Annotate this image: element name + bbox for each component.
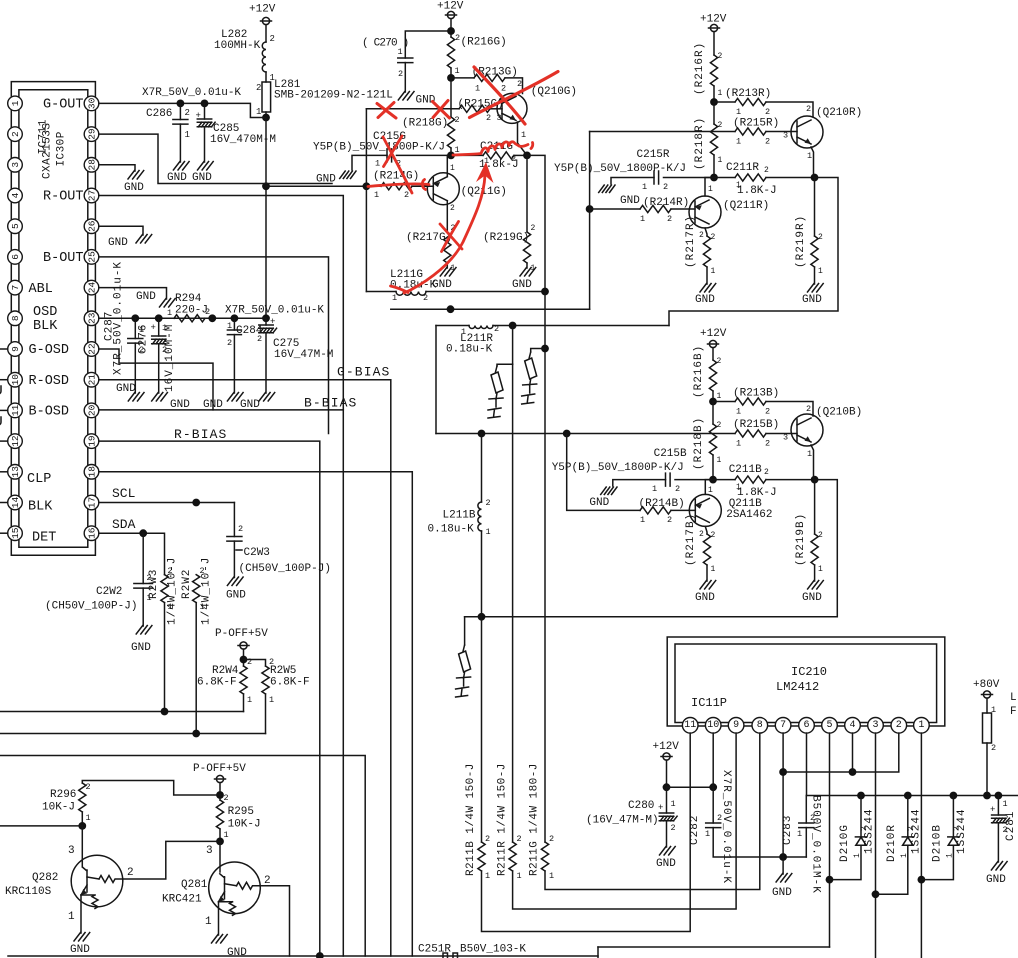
svg-text:SMB-201209-N2-121L: SMB-201209-N2-121L xyxy=(274,90,393,102)
svg-text:6.8K-F: 6.8K-F xyxy=(270,677,310,689)
junction SDA / C2W2 xyxy=(139,529,147,537)
junction C276 xyxy=(155,314,163,322)
junction P-OFF node xyxy=(216,791,224,799)
wire R215B to base xyxy=(766,433,797,435)
svg-text:2: 2 xyxy=(227,338,232,348)
svg-text:R294: R294 xyxy=(175,293,202,305)
svg-text:(R219B): (R219B) xyxy=(795,513,807,566)
wire stub pin 13 xyxy=(0,471,8,473)
junction N4B xyxy=(811,476,819,484)
svg-text:7: 7 xyxy=(780,720,786,731)
wire N3G to C211G xyxy=(451,154,483,156)
spark gap (B line) xyxy=(456,645,471,697)
wire G video column xyxy=(544,292,546,843)
bus wire y825 to left edge xyxy=(0,825,82,827)
svg-text:2: 2 xyxy=(765,107,770,117)
svg-text:5: 5 xyxy=(10,223,21,229)
wire Q211R emitter xyxy=(705,228,707,236)
wire pin6 column xyxy=(806,733,808,795)
wire R2W3 to bus xyxy=(164,603,166,712)
svg-text:3: 3 xyxy=(872,720,878,731)
resistor C211G 1.8k xyxy=(483,152,514,159)
svg-text:24: 24 xyxy=(87,282,98,294)
wire pin7 column xyxy=(782,733,784,857)
wire C287 top lead xyxy=(134,318,136,338)
wire D210B top xyxy=(952,796,954,837)
wire C280 to GND xyxy=(666,821,668,847)
ground C285 xyxy=(198,162,214,171)
wire R video column lower xyxy=(512,364,514,842)
resistor R215G xyxy=(459,105,490,112)
junction C285 top xyxy=(201,100,209,108)
svg-text:+80V: +80V xyxy=(973,679,1000,691)
svg-text:B-BIAS: B-BIAS xyxy=(304,396,357,411)
svg-text:1: 1 xyxy=(736,137,741,147)
svg-text:1: 1 xyxy=(256,107,261,117)
wire C270 to GND xyxy=(404,63,406,92)
junction L281 / +12V rail xyxy=(262,114,270,122)
junction R294 right xyxy=(208,314,216,322)
wire C285 lead xyxy=(204,103,206,119)
svg-text:9: 9 xyxy=(10,346,21,352)
resistor R215B xyxy=(735,430,766,437)
svg-text:4: 4 xyxy=(849,720,855,731)
svg-text:1: 1 xyxy=(736,107,741,117)
transistor Q210R symbol xyxy=(791,116,823,148)
wire N3B to C211B xyxy=(713,479,735,481)
wire R219B to GND xyxy=(814,565,816,581)
resistor R216B xyxy=(709,360,716,391)
junction R214G input xyxy=(363,182,371,190)
wire Q211B emitter xyxy=(705,526,707,534)
junction G feed tap xyxy=(262,182,270,190)
red strike over R214G xyxy=(368,180,429,190)
wire R213G to Q210G collector xyxy=(505,78,523,94)
wire C275 top lead xyxy=(265,318,267,325)
svg-text:22: 22 xyxy=(87,343,98,355)
ground C276 xyxy=(152,393,168,402)
svg-text:GND: GND xyxy=(108,237,128,249)
svg-text:2: 2 xyxy=(765,137,770,147)
svg-text:1: 1 xyxy=(374,190,379,200)
resistor R219G xyxy=(523,232,530,263)
svg-text:2: 2 xyxy=(991,743,996,753)
capacitor C2W3 xyxy=(227,537,242,542)
svg-text:2: 2 xyxy=(896,720,902,731)
svg-text:2: 2 xyxy=(485,834,490,844)
junction +12V/C280 xyxy=(663,783,671,791)
P-OFF+5V terminal (upper) xyxy=(238,642,249,649)
wire R feedback right edge xyxy=(669,178,838,326)
wire C280 lead xyxy=(666,787,668,813)
svg-text:6: 6 xyxy=(803,720,809,731)
resistor R211G xyxy=(541,842,548,871)
svg-text:1: 1 xyxy=(68,911,75,923)
wire L282 to L281 xyxy=(265,72,267,82)
+12V terminal (IC210) xyxy=(661,753,672,760)
wire R218R to N3R xyxy=(713,155,715,178)
wire C276 to GND xyxy=(158,344,160,393)
svg-text:R2W3: R2W3 xyxy=(148,569,160,599)
svg-text:GND: GND xyxy=(589,497,609,509)
wire R-BIAS xyxy=(99,441,320,956)
svg-text:16: 16 xyxy=(87,527,98,539)
svg-text:2: 2 xyxy=(765,439,770,449)
svg-text:1.8K-J: 1.8K-J xyxy=(737,185,777,197)
svg-text:G-BIAS: G-BIAS xyxy=(337,365,390,380)
+12V terminal (G block) xyxy=(446,11,457,18)
wire R219G to GND xyxy=(526,263,528,268)
IC711 pin 17 xyxy=(84,495,99,510)
wire C211G to N4G xyxy=(514,154,527,156)
svg-text:GND: GND xyxy=(131,642,151,654)
resistor R216R xyxy=(710,55,717,86)
junction R214R input xyxy=(586,205,594,213)
svg-text:C215R: C215R xyxy=(637,149,670,161)
svg-text:2: 2 xyxy=(10,131,21,137)
IC210 pin 1 xyxy=(914,718,930,734)
junction C281 top xyxy=(995,792,1003,800)
IC711 pin 28 xyxy=(84,158,99,173)
IC711 pin 4 xyxy=(8,188,23,203)
svg-text:R-OUT: R-OUT xyxy=(43,190,84,205)
wire pin29 to GND xyxy=(99,134,332,183)
svg-text:2: 2 xyxy=(517,834,522,844)
wire R218G to N3G xyxy=(450,148,452,155)
junction R bottom / mid column xyxy=(447,305,455,313)
wire Q281 collector out xyxy=(260,886,289,956)
svg-text:GND: GND xyxy=(124,182,144,194)
svg-text:2: 2 xyxy=(185,108,190,118)
+12V terminal (top-left) xyxy=(261,17,272,24)
IC711 pin 27 xyxy=(84,188,99,203)
svg-text:(R219G): (R219G) xyxy=(483,232,529,244)
svg-text:1: 1 xyxy=(10,100,21,106)
ground R219R xyxy=(808,284,824,293)
svg-text:(R214R): (R214R) xyxy=(643,197,689,209)
svg-text:2: 2 xyxy=(718,121,723,130)
svg-text:D210R: D210R xyxy=(886,824,898,862)
+12V terminal (R block) xyxy=(709,24,720,31)
svg-text:(R216B): (R216B) xyxy=(693,345,705,398)
svg-text:GND: GND xyxy=(695,294,715,306)
resistor R219B xyxy=(811,534,818,565)
svg-text:CLP: CLP xyxy=(27,472,51,487)
svg-text:1: 1 xyxy=(818,565,823,574)
svg-text:(Q210R): (Q210R) xyxy=(816,107,862,119)
wire branch to R2W5 xyxy=(244,660,266,667)
wire spark gap 2 branch xyxy=(531,349,545,353)
svg-text:1: 1 xyxy=(708,185,713,194)
wire R295 to Q281 base node xyxy=(219,829,221,841)
capacitor C285 (polarized) xyxy=(197,119,215,127)
svg-text:13: 13 xyxy=(10,466,21,478)
resistor R2W5 xyxy=(262,666,269,694)
svg-text:1: 1 xyxy=(797,829,802,839)
svg-text:(Q210B): (Q210B) xyxy=(816,407,862,419)
IC711 pin 21 xyxy=(84,372,99,387)
diode D210R xyxy=(902,837,913,845)
IC711 pin 11 xyxy=(8,403,23,418)
svg-text:2: 2 xyxy=(717,813,722,823)
svg-text:LM2412: LM2412 xyxy=(776,680,819,694)
wire C282 to gnd bus xyxy=(713,828,806,857)
wire R left edge top xyxy=(590,131,735,133)
ground R217B xyxy=(700,581,716,590)
wire Q210B emitter xyxy=(811,445,814,480)
wire C275 to GND xyxy=(265,333,267,393)
ground C281 xyxy=(991,862,1007,871)
svg-text:2: 2 xyxy=(256,83,261,93)
svg-text:1: 1 xyxy=(375,159,380,169)
wire stub pin 10 xyxy=(0,379,8,381)
IC711 pin 18 xyxy=(84,465,99,480)
capacitor C270 xyxy=(398,58,413,63)
svg-text:1: 1 xyxy=(918,720,924,731)
wire D210R bottom xyxy=(876,845,908,894)
wire R video column xyxy=(512,326,514,365)
spark gap (G line) xyxy=(522,352,537,404)
svg-text:B-OUT: B-OUT xyxy=(43,251,84,266)
wire L211R to R column xyxy=(493,325,669,327)
svg-text:2: 2 xyxy=(667,214,672,224)
svg-text:2: 2 xyxy=(717,421,722,430)
svg-text:1: 1 xyxy=(461,327,466,337)
svg-text:GND: GND xyxy=(772,887,792,899)
IC711 pin 1 xyxy=(8,96,23,111)
wire pin5 column xyxy=(829,733,831,947)
svg-text:25: 25 xyxy=(87,251,98,263)
wire coil to G column xyxy=(426,291,545,293)
IC711 pin 25 xyxy=(84,250,99,265)
svg-text:B50V_103-K: B50V_103-K xyxy=(460,944,526,956)
wire L211R rail xyxy=(436,325,469,327)
capacitor C282 xyxy=(706,823,721,828)
junction +80V bus xyxy=(983,792,991,800)
wire C284 to GND xyxy=(233,335,235,393)
wire L211R corner down xyxy=(435,326,437,434)
wire B video upper xyxy=(481,434,483,503)
IC711 pin 24 xyxy=(84,280,99,295)
red arrowhead xyxy=(476,162,494,183)
svg-text:1: 1 xyxy=(711,267,716,276)
svg-text:KRC110S: KRC110S xyxy=(5,886,52,898)
wire R214B to base xyxy=(671,509,695,511)
wire pin3 column xyxy=(875,733,877,958)
svg-text:2: 2 xyxy=(200,566,205,576)
svg-text:10: 10 xyxy=(707,720,719,731)
junction N3G xyxy=(447,152,455,160)
junction R295/Q281 base xyxy=(216,838,224,846)
svg-text:29: 29 xyxy=(87,128,98,140)
wire C281 to GND xyxy=(997,823,999,862)
resistor R217G xyxy=(444,232,451,263)
wire C286 lead xyxy=(179,103,181,119)
svg-text:1: 1 xyxy=(86,813,91,823)
svg-text:2: 2 xyxy=(764,468,769,477)
svg-text:+: + xyxy=(658,803,663,813)
svg-text:27: 27 xyxy=(87,190,98,201)
svg-text:1: 1 xyxy=(671,799,676,809)
svg-text:GND: GND xyxy=(620,195,640,207)
red scribble over C211G xyxy=(453,142,533,155)
wire N4B to R219B xyxy=(814,480,816,534)
svg-text:1: 1 xyxy=(642,182,647,192)
svg-text:1: 1 xyxy=(711,565,716,574)
wire N4G to G column xyxy=(527,155,545,291)
svg-text:28: 28 xyxy=(87,159,98,171)
red X over C215G xyxy=(383,136,412,193)
svg-text:1: 1 xyxy=(640,515,645,525)
svg-text:1: 1 xyxy=(450,164,455,173)
svg-text:IC11P: IC11P xyxy=(691,696,727,710)
wire R219R to GND xyxy=(814,267,816,284)
svg-text:+12V: +12V xyxy=(249,4,276,16)
ground pin26 xyxy=(136,235,152,244)
wire Q282 emitter to GND xyxy=(80,895,82,933)
svg-text:CXA2153S: CXA2153S xyxy=(42,123,54,179)
svg-text:(CH50V_100P-J): (CH50V_100P-J) xyxy=(239,563,331,575)
svg-text:2: 2 xyxy=(501,84,506,94)
svg-text:1: 1 xyxy=(521,130,526,140)
wire Q282 base xyxy=(81,826,83,866)
svg-text:R-BIAS: R-BIAS xyxy=(174,427,227,442)
IC210 pin 8 xyxy=(752,718,768,734)
capacitor C280 (polarized) xyxy=(659,813,677,821)
junction pin1/D210B xyxy=(918,876,926,884)
wire B-BIAS xyxy=(99,410,343,956)
wire C283 to gnd bus xyxy=(805,828,807,857)
junction pin7/gnd line xyxy=(779,768,787,776)
diode D210G xyxy=(855,837,866,845)
wire N4R to R219R xyxy=(814,178,816,237)
inductor L211R xyxy=(469,326,493,329)
svg-text:1SS244: 1SS244 xyxy=(911,808,923,854)
svg-text:(Q211R): (Q211R) xyxy=(723,200,769,212)
junction bus/D210R xyxy=(904,792,912,800)
svg-text:2: 2 xyxy=(455,33,460,43)
svg-text:1: 1 xyxy=(1003,799,1008,809)
svg-text:Y5P(B)_50V_1800P-K/J: Y5P(B)_50V_1800P-K/J xyxy=(313,142,445,154)
wire Q281 emitter to GND xyxy=(218,902,220,935)
svg-text:2: 2 xyxy=(238,524,243,534)
wire Q210R emitter xyxy=(811,147,814,178)
junction bus733 R2W2 xyxy=(192,730,200,738)
wire R216G to N1G xyxy=(450,68,452,78)
svg-text:R211G 1/4W 180-J: R211G 1/4W 180-J xyxy=(529,763,541,876)
wire Q211B collector xyxy=(705,480,713,495)
svg-text:1: 1 xyxy=(818,267,823,276)
svg-text:0.18u-K: 0.18u-K xyxy=(446,344,493,356)
svg-text:C211B: C211B xyxy=(729,464,762,476)
junction N1R xyxy=(710,98,718,106)
svg-text:8: 8 xyxy=(757,720,763,731)
svg-text:R211B 1/4W 150-J: R211B 1/4W 150-J xyxy=(465,763,477,876)
svg-text:5: 5 xyxy=(826,720,832,731)
svg-text:(CH50V_100P-J): (CH50V_100P-J) xyxy=(45,601,137,613)
svg-text:12: 12 xyxy=(10,435,21,447)
ground C270 xyxy=(398,92,414,101)
svg-text:R2W2: R2W2 xyxy=(181,569,193,599)
svg-text:11: 11 xyxy=(10,404,21,416)
svg-text:2: 2 xyxy=(663,182,668,192)
resistor R216G xyxy=(447,37,454,68)
svg-text:D210G: D210G xyxy=(839,824,851,862)
svg-text:2: 2 xyxy=(224,793,229,803)
svg-text:1: 1 xyxy=(205,916,212,928)
svg-text:2: 2 xyxy=(404,190,409,200)
wire +12V to L282 xyxy=(265,25,267,42)
svg-text:1: 1 xyxy=(549,871,554,881)
IC210 pin 7 xyxy=(775,718,791,734)
wire R218B to N3B xyxy=(712,455,714,480)
resistor R213R xyxy=(735,98,766,105)
svg-text:C2W3: C2W3 xyxy=(244,547,270,559)
junction C275 top xyxy=(262,314,270,322)
IC U210 LM2412 outer body xyxy=(667,637,945,726)
wire R2W4 to bus xyxy=(243,694,245,712)
resistor R214R xyxy=(640,205,671,212)
junction C287 xyxy=(131,314,139,322)
svg-text:Q281: Q281 xyxy=(181,879,208,891)
wire +12V to R216G xyxy=(450,19,452,37)
wire page bottom bus xyxy=(8,955,598,957)
resistor R218R xyxy=(710,124,717,155)
wire R left edge xyxy=(589,132,591,310)
transistor Q211R symbol xyxy=(689,196,721,228)
ground Q282 xyxy=(74,933,90,942)
resistor R2W2 xyxy=(193,575,200,603)
svg-text:15: 15 xyxy=(10,527,21,539)
svg-text:(R214G): (R214G) xyxy=(373,171,419,183)
wire P-OFF to R2W4 xyxy=(243,649,245,666)
wire R217B to GND xyxy=(706,565,708,581)
wire R217R to GND xyxy=(706,267,708,284)
svg-text:BLK: BLK xyxy=(33,319,58,334)
capacitor C283 xyxy=(799,823,814,828)
wire +12V node to pin10 column xyxy=(667,786,714,788)
junction N3R xyxy=(710,174,718,182)
IC210 pin 10 xyxy=(705,718,721,734)
ground pin28 xyxy=(128,171,144,180)
IC711 pin 15 xyxy=(8,526,23,541)
svg-text:1: 1 xyxy=(185,130,190,140)
C2W3 leader dash xyxy=(236,549,242,551)
svg-text:2: 2 xyxy=(398,69,403,79)
svg-text:2: 2 xyxy=(699,530,704,539)
svg-text:10K-J: 10K-J xyxy=(228,819,261,831)
svg-text:8: 8 xyxy=(10,315,21,321)
wire R2W2 to bus xyxy=(195,603,197,734)
svg-text:GND: GND xyxy=(70,944,90,956)
svg-text:1: 1 xyxy=(398,47,403,57)
wire SCL xyxy=(99,502,235,504)
svg-text:14: 14 xyxy=(10,497,21,509)
svg-text:KRC421: KRC421 xyxy=(162,894,202,906)
resistor R295 xyxy=(216,800,223,829)
svg-text:B500V_0.01M-K: B500V_0.01M-K xyxy=(810,795,822,894)
svg-text:1: 1 xyxy=(717,456,722,465)
svg-text:L: L xyxy=(1010,692,1017,704)
wire G left edge xyxy=(365,109,367,292)
wire C287 to GND xyxy=(134,343,136,393)
svg-text:C215B: C215B xyxy=(654,448,687,460)
wire P-OFF node to R296 xyxy=(82,781,220,796)
svg-text:10: 10 xyxy=(10,374,21,386)
wire B left edge xyxy=(567,434,640,511)
svg-text:1: 1 xyxy=(717,392,722,401)
svg-text:P-OFF+5V: P-OFF+5V xyxy=(193,763,246,775)
